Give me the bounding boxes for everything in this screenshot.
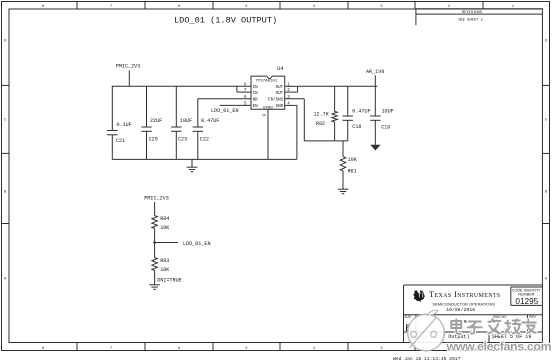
- resistor R84: [152, 216, 157, 229]
- svg-text:4: 4: [313, 347, 315, 351]
- svg-text:SIZE: SIZE: [404, 315, 411, 319]
- wire node to label: [155, 242, 178, 244]
- wire OUT join: [297, 86, 299, 92]
- svg-text:LDO_01_EN: LDO_01_EN: [183, 241, 211, 247]
- svg-text:IN: IN: [253, 86, 259, 90]
- TI logo: [413, 290, 424, 302]
- wire R84 to node: [154, 229, 156, 243]
- svg-text:D: D: [4, 40, 6, 44]
- svg-text:OUT: OUT: [276, 92, 284, 96]
- wire PMIC_2V3 stem: [128, 70, 130, 86]
- svg-text:TPS7A8101: TPS7A8101: [256, 79, 278, 83]
- wire FB/SNS net: [285, 98, 305, 100]
- svg-text:R81: R81: [348, 169, 357, 175]
- svg-text:GND: GND: [276, 105, 284, 109]
- svg-text:DNI=TRUE: DNI=TRUE: [157, 278, 181, 284]
- wire GND pin4: [285, 104, 297, 106]
- wire ground rail: [112, 158, 297, 160]
- wire OUT pin1: [285, 85, 298, 87]
- svg-text:C: C: [545, 119, 547, 123]
- ground (R81): [338, 188, 349, 190]
- capacitor C22: [197, 99, 199, 127]
- ground (cap rail): [187, 166, 198, 168]
- capacitor C21: [111, 86, 113, 130]
- svg-text:C18: C18: [352, 124, 361, 130]
- ground arrow (C19): [370, 145, 380, 151]
- revisions block: [416, 8, 543, 10]
- svg-text:Texas Instruments: Texas Instruments: [429, 290, 501, 299]
- svg-text:6: 6: [178, 5, 180, 9]
- svg-text:0.47UF: 0.47UF: [352, 108, 370, 114]
- title block: [404, 284, 543, 286]
- svg-text:C21: C21: [116, 138, 125, 144]
- svg-text:NR: NR: [253, 99, 259, 103]
- wire NR net: [198, 98, 251, 100]
- svg-text:C19: C19: [381, 125, 390, 131]
- svg-text:0.47UF: 0.47UF: [201, 118, 219, 124]
- svg-text:10UF: 10UF: [382, 108, 394, 114]
- svg-text:REV: REV: [529, 315, 536, 319]
- svg-text:SEMICONDUCTOR OPERATIONS: SEMICONDUCTOR OPERATIONS: [432, 301, 495, 306]
- code identity box: [511, 286, 542, 288]
- svg-text:12.7K: 12.7K: [314, 112, 330, 118]
- svg-text:10UF: 10UF: [180, 118, 192, 124]
- svg-text:U4: U4: [277, 66, 283, 72]
- svg-text:R84: R84: [160, 216, 169, 222]
- svg-text:SEE SHEET 2: SEE SHEET 2: [458, 18, 482, 22]
- svg-text:C22: C22: [200, 136, 209, 142]
- svg-text:PMIC_2V3: PMIC_2V3: [144, 195, 168, 201]
- svg-text:7: 7: [110, 347, 112, 351]
- wire PMIC_2V3 to R84: [154, 202, 156, 216]
- svg-text:0.1UF: 0.1UF: [117, 122, 132, 128]
- wire output net AR_1V8: [298, 85, 378, 87]
- svg-text:3: 3: [380, 5, 382, 9]
- svg-text:10K: 10K: [348, 157, 358, 163]
- IC U4 TPS7A8101 body: [251, 76, 285, 109]
- svg-text:FB/SNS: FB/SNS: [268, 98, 284, 103]
- capacitor C23: [175, 86, 177, 127]
- svg-text:R83: R83: [160, 258, 169, 264]
- svg-text:5: 5: [245, 5, 247, 9]
- svg-text:LDO_01_EN: LDO_01_EN: [211, 108, 239, 114]
- svg-text:01295: 01295: [515, 297, 538, 306]
- capacitor C25: [146, 86, 148, 127]
- svg-text:EN: EN: [253, 105, 259, 109]
- svg-text:8: 8: [42, 347, 44, 351]
- svg-text:LDO_01 (1.8V OUTPUT): LDO_01 (1.8V OUTPUT): [174, 16, 277, 26]
- svg-text:8: 8: [42, 5, 44, 9]
- svg-text:REVISIONS: REVISIONS: [462, 11, 483, 15]
- svg-text:AR_1V8: AR_1V8: [366, 69, 384, 75]
- wire AR_1V8 stub: [374, 75, 376, 86]
- node LDO_01_EN junction: [153, 241, 156, 244]
- svg-text:10K: 10K: [160, 225, 170, 231]
- svg-text:www.elecfans.com: www.elecfans.com: [446, 340, 552, 354]
- wire EPAD pin9: [267, 109, 269, 159]
- resistor R83: [152, 258, 157, 271]
- svg-text:D: D: [545, 40, 547, 44]
- svg-text:10K: 10K: [160, 267, 170, 273]
- resistor R81: [342, 141, 344, 157]
- svg-text:OUT: OUT: [276, 86, 284, 90]
- svg-text:R82: R82: [316, 121, 325, 127]
- svg-text:DWG NO: DWG NO: [493, 315, 507, 319]
- wire node to R83: [154, 243, 156, 258]
- wire EN net: [220, 104, 251, 106]
- svg-text:NUMBER: NUMBER: [518, 293, 535, 297]
- capacitor C19: [374, 86, 376, 116]
- wire OUT pin2: [285, 91, 298, 93]
- capacitor C18: [347, 86, 349, 116]
- svg-text:Wed Jan 18 11:14:45 2017: Wed Jan 18 11:14:45 2017: [393, 356, 461, 362]
- wire input bus to pin 8: [112, 85, 251, 87]
- svg-text:4: 4: [313, 5, 315, 9]
- resistor R82: [334, 86, 336, 111]
- wire IN pin7 join: [236, 86, 238, 92]
- wire R83 to ground: [154, 271, 156, 285]
- svg-text:PMIC_2V3: PMIC_2V3: [116, 64, 140, 70]
- ground (R83): [149, 284, 160, 286]
- svg-text:7: 7: [110, 5, 112, 9]
- svg-text:22UF: 22UF: [150, 118, 162, 124]
- svg-text:C23: C23: [178, 136, 187, 142]
- svg-text:C25: C25: [149, 136, 158, 142]
- svg-text:3: 3: [380, 347, 382, 351]
- svg-text:6: 6: [178, 347, 180, 351]
- svg-text:IN: IN: [253, 92, 259, 96]
- watermark chinese characters: [451, 319, 536, 334]
- svg-text:5: 5: [245, 347, 247, 351]
- svg-text:C: C: [4, 119, 6, 123]
- svg-text:10/08/2016: 10/08/2016: [446, 307, 475, 313]
- watermark logo circle: [408, 310, 445, 351]
